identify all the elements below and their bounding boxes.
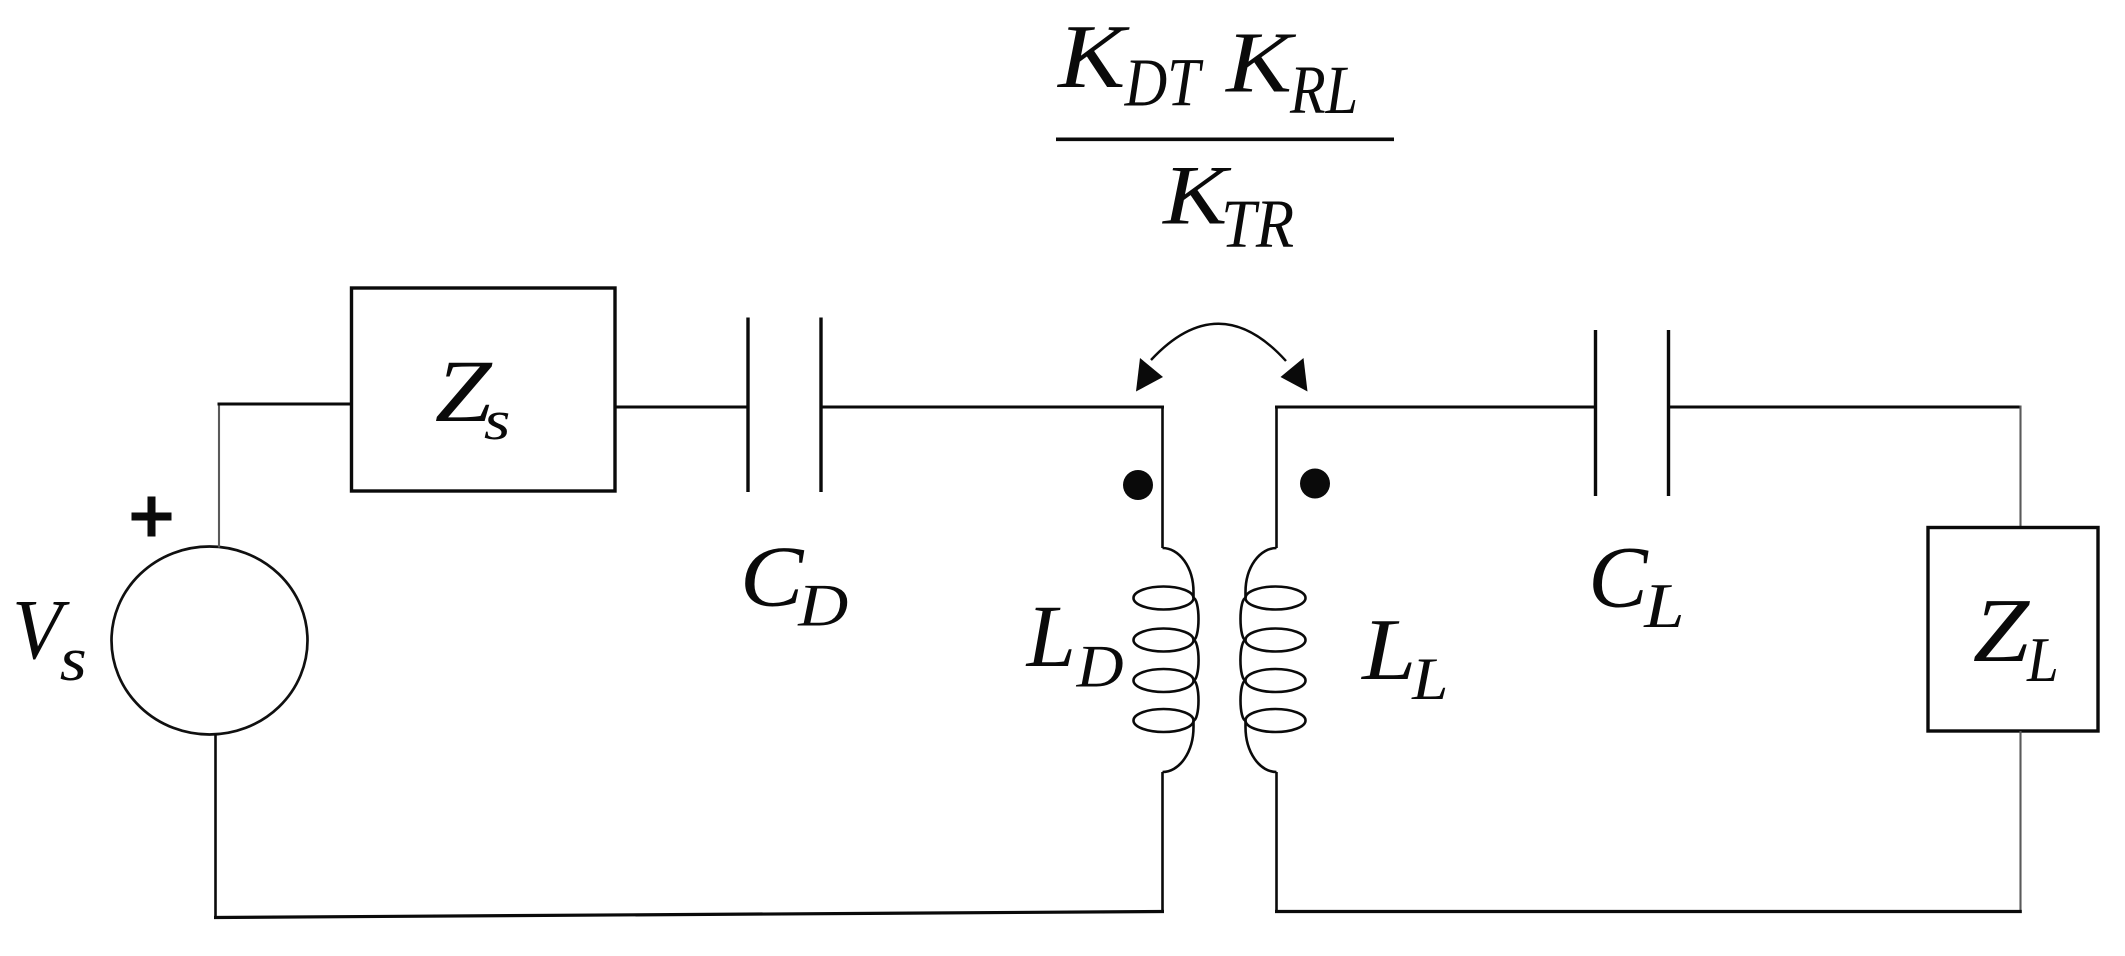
svg-text:D: D [1076,633,1124,700]
wire: bottom left horizontal [214,912,1164,918]
wire: right corner down to ZL [2019,406,2021,528]
svg-text:L: L [2026,625,2059,695]
wire: transformer right to CL [1275,406,1596,409]
capacitor CD [748,318,821,493]
box ZS [352,288,616,491]
wire: Zs to CD [615,406,749,409]
fraction denominator K_TR [1161,148,1294,263]
svg-text:K: K [1056,5,1130,107]
polarity dot right [1300,469,1330,499]
inductor LD (primary winding) [1134,406,1199,914]
svg-text:C: C [1588,529,1648,626]
capacitor CL [1596,330,1669,496]
svg-text:s: s [60,625,87,694]
arrowhead right [1281,358,1308,392]
wire: bottom right horizontal [1275,910,2022,913]
box ZL [1928,528,2098,732]
inductor LL (secondary winding) [1240,406,1305,914]
svg-text:RL: RL [1289,51,1358,128]
wire: source top vertical [218,404,220,548]
svg-text:L: L [1411,645,1448,712]
svg-text:K: K [1224,15,1297,111]
polarity dot left [1123,470,1153,500]
wire: CL to top right corner [1669,406,2021,409]
wire: source bottom vertical [214,734,217,918]
label ZL [1973,580,2059,696]
svg-text:L: L [1025,588,1076,686]
svg-text:TR: TR [1221,186,1294,262]
fraction numerator K_DT K_RL [1056,5,1358,128]
label LD [1025,588,1124,700]
label CD [740,529,848,640]
fraction bar [1056,138,1394,142]
svg-text:s: s [484,388,511,451]
svg-text:DT: DT [1124,44,1204,120]
label LL [1360,603,1448,713]
label Zs [435,342,511,451]
coupling arrow arc [1151,324,1286,361]
wire: CD to transformer left [821,406,1164,409]
arrowhead left [1136,358,1163,392]
plus polarity mark [132,497,172,537]
svg-text:D: D [797,573,848,640]
svg-text:L: L [1360,603,1416,699]
svg-text:L: L [1643,570,1684,641]
wire: ZL down to bottom [2019,731,2021,913]
svg-text:C: C [740,529,805,625]
svg-text:Z: Z [1973,580,2031,681]
wire: top left horizontal to Zs [218,403,353,406]
voltage source VS circle [112,547,308,735]
label CL [1588,529,1684,641]
label Vs [12,583,87,694]
